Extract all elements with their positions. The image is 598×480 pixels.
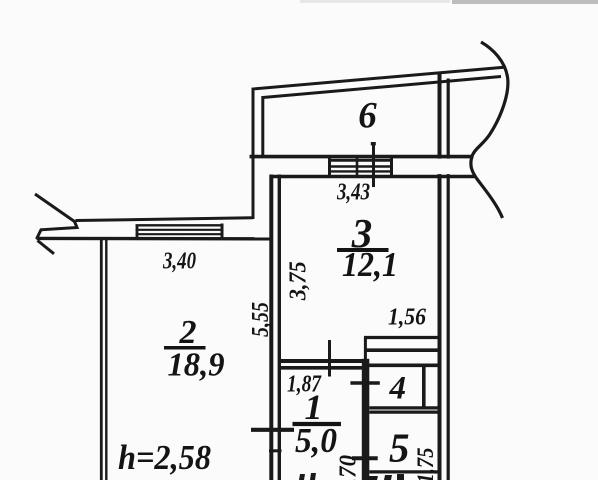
wall rooms2/3-1 vertical double (269, 175, 273, 480)
room4 bottom double wall (369, 406, 438, 409)
svg-text:6: 6 (358, 96, 377, 137)
closet mid line (364, 348, 439, 352)
cut-off glyphs bottom edge (299, 474, 305, 480)
room 3 fraction line (337, 248, 389, 252)
dim tick on thick wall lower (352, 456, 378, 460)
room3 bottom wall (279, 359, 366, 363)
svg-text:1,75: 1,75 (413, 448, 438, 480)
svg-text:2: 2 (179, 314, 197, 351)
svg-text:18,9: 18,9 (168, 347, 225, 384)
svg-text:3,75: 3,75 (286, 261, 312, 301)
dim tick on room3 bottom wall (328, 340, 331, 377)
wall band white gap over right wall (435, 159, 454, 175)
wall right outer (east wall of rooms 6/3/4/5) (438, 72, 442, 480)
svg-text:5: 5 (389, 425, 410, 471)
wall right inner (447, 79, 450, 480)
room5 bottom line (369, 470, 438, 473)
svg-text:1,56: 1,56 (388, 305, 426, 331)
room2 left wall (100, 238, 103, 480)
room2 top wall bottom line (37, 237, 272, 241)
entrance door polyline (35, 194, 77, 239)
room 2 fraction line (164, 346, 206, 350)
dim tick window W2 (372, 143, 375, 188)
jamb tie on wall (269, 449, 282, 452)
tick top serif (371, 142, 376, 145)
window W2 divider (356, 158, 359, 177)
break curve right (471, 42, 508, 218)
wall band room6/room3 bottom line (271, 175, 475, 179)
closet top line (364, 336, 439, 339)
wall band room6/room3 top line (250, 155, 474, 159)
svg-text:3,43: 3,43 (336, 180, 370, 206)
svg-text:12,1: 12,1 (342, 245, 398, 284)
svg-text:3,70: 3,70 (336, 455, 362, 480)
svg-text:3,40: 3,40 (162, 249, 196, 275)
room2 top wall top line (76, 218, 254, 221)
scan streak top edge (452, 0, 598, 4)
dim tick on wall 2/1 (251, 428, 294, 432)
balcony left wall inner (263, 77, 501, 159)
svg-text:5,55: 5,55 (248, 302, 274, 337)
svg-text:5,0: 5,0 (295, 421, 337, 460)
svg-text:h=2,58: h=2,58 (118, 438, 211, 477)
balcony left wall outer (253, 67, 504, 219)
closet above room4 left edge (364, 337, 367, 367)
window W2 (3,43) box (328, 158, 331, 178)
closet bottom line / room4 top (364, 363, 439, 367)
svg-text:4: 4 (388, 370, 406, 406)
room 1 fraction line (293, 422, 342, 426)
thick wall rooms 1|4,5 (362, 359, 370, 480)
window W1 (3,40) box (136, 225, 139, 239)
dim tick on thick wall upper (350, 381, 379, 384)
room4 compartment divider (422, 366, 426, 407)
